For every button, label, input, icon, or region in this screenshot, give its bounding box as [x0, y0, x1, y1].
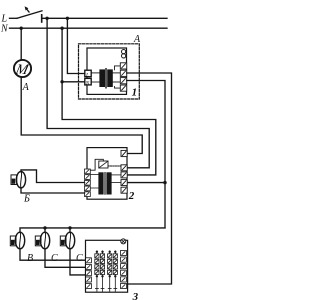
motor M	[14, 60, 31, 77]
block2 internal stubs	[90, 174, 98, 176]
block1 right terminals	[120, 63, 126, 91]
wire button C1 to block3	[45, 249, 86, 267]
wire motor drop	[20, 28, 22, 60]
dashed enclosure A	[79, 44, 140, 99]
node block2 termD tap	[163, 181, 166, 184]
wire motor to bus	[21, 77, 142, 154]
block1 terminal N	[85, 78, 91, 85]
bell button B ellipse	[16, 172, 25, 188]
wire button B top to block2	[21, 170, 85, 183]
svg-text:L: L	[85, 72, 89, 78]
node bus button C2	[68, 226, 71, 229]
switch fixed contact tick	[41, 15, 43, 22]
block1 indicator circles	[122, 50, 126, 54]
svg-text:А: А	[133, 34, 141, 45]
wire block1-t3 chain	[127, 81, 165, 228]
wire button B bottom to block2	[21, 188, 85, 193]
svg-text:Б: Б	[23, 193, 30, 204]
switch actuator arrow	[26, 8, 29, 12]
block3 top-right circle	[121, 239, 126, 244]
node N-chain	[60, 27, 63, 30]
block2 contact bar right	[106, 172, 111, 194]
block1 transformer winding left	[99, 69, 105, 87]
block2 right terminals	[121, 165, 127, 193]
block 1 body	[87, 48, 127, 94]
switch blade	[17, 11, 42, 18]
svg-text:С: С	[76, 253, 83, 264]
wire button C2 to block3	[70, 249, 86, 275]
node L-chain1	[45, 17, 48, 20]
block3 relay group 1	[95, 251, 105, 292]
block1 transformer winding right	[107, 69, 113, 87]
svg-text:3: 3	[132, 291, 139, 300]
block3 relay group 2	[108, 251, 118, 292]
push button V base square	[10, 236, 16, 246]
node N to block1	[60, 80, 63, 83]
wire N into block1	[62, 81, 85, 83]
svg-text:С: С	[51, 253, 58, 264]
wire N-chain to box2	[62, 28, 156, 175]
wire to block2 termD	[127, 182, 165, 184]
switch SA stub	[10, 17, 18, 19]
wire N bus	[10, 27, 168, 29]
push button C2 base square	[60, 236, 66, 246]
block2 coil hook wire	[91, 159, 104, 170]
block2 contact core	[104, 172, 106, 194]
svg-text:N: N	[85, 81, 90, 87]
bell button B (middle) base square	[11, 175, 17, 185]
svg-text:1: 1	[132, 87, 138, 99]
block2 contact bar left	[98, 172, 103, 194]
block2 dashed link	[108, 165, 121, 167]
wire button V to block3	[20, 249, 86, 260]
wire bus risers	[44, 228, 46, 233]
wire L-chain1 to box2	[47, 18, 149, 168]
wire block1-t2 chain	[127, 73, 172, 284]
block2 left terminals	[85, 169, 91, 197]
svg-text:2: 2	[128, 190, 135, 202]
node L-chain2	[66, 17, 69, 20]
block2 coil	[99, 161, 108, 168]
svg-text:А: А	[22, 82, 30, 93]
block1 terminal L	[85, 70, 91, 77]
wire L bus	[43, 17, 168, 19]
block3 left terminals	[86, 258, 92, 289]
push button C2 ellipse	[65, 232, 74, 249]
block1 transformer core	[105, 68, 107, 88]
block3 right terminals	[121, 250, 127, 288]
push button V ellipse	[15, 232, 24, 249]
push button C1 base square	[35, 236, 41, 246]
block 2 body	[87, 148, 127, 200]
push button C1 ellipse	[40, 232, 49, 249]
block 3 body	[86, 240, 128, 292]
block1 internal stubs	[91, 72, 100, 74]
wire button bus	[20, 228, 165, 233]
block2 top-right terminal	[121, 150, 127, 156]
svg-text:В: В	[27, 253, 33, 264]
node bus button C1	[43, 226, 46, 229]
wire L-chain2 into block1	[67, 18, 85, 73]
svg-text:N: N	[0, 24, 9, 35]
node motor tap	[20, 27, 23, 30]
